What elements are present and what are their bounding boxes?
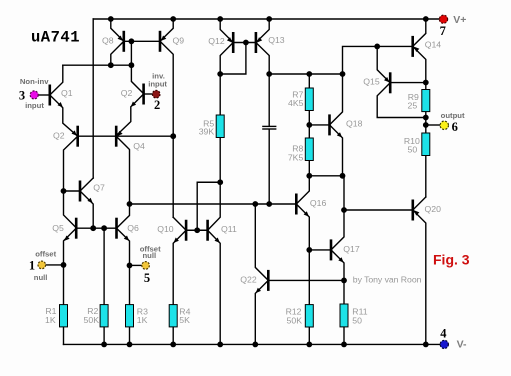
svg-text:1K: 1K	[137, 315, 148, 325]
svg-text:Q2: Q2	[121, 88, 133, 98]
svg-text:Q22: Q22	[240, 275, 257, 285]
svg-text:5: 5	[144, 271, 150, 285]
svg-text:Q10: Q10	[157, 224, 174, 234]
svg-text:Q12: Q12	[208, 36, 225, 46]
svg-text:Q18: Q18	[346, 119, 363, 129]
svg-text:50K: 50K	[84, 315, 100, 325]
svg-text:V+: V+	[453, 14, 466, 26]
svg-text:null: null	[34, 273, 48, 282]
svg-text:Q2: Q2	[53, 131, 65, 141]
svg-text:1: 1	[29, 259, 35, 273]
svg-text:Q15: Q15	[363, 77, 380, 87]
svg-text:Q14: Q14	[425, 40, 442, 50]
svg-text:input: input	[148, 79, 167, 88]
svg-text:2: 2	[154, 98, 160, 112]
svg-text:Q11: Q11	[221, 224, 237, 234]
svg-text:Q8: Q8	[102, 36, 114, 46]
svg-text:null: null	[142, 251, 156, 260]
svg-text:1K: 1K	[45, 315, 56, 325]
svg-text:Non-inv: Non-inv	[20, 77, 49, 86]
svg-text:output: output	[441, 111, 465, 120]
svg-text:4K5: 4K5	[288, 98, 304, 108]
svg-text:Q13: Q13	[268, 35, 285, 45]
svg-text:7K5: 7K5	[288, 153, 304, 163]
svg-text:by Tony van Roon: by Tony van Roon	[353, 275, 422, 285]
svg-text:4: 4	[440, 326, 447, 340]
svg-text:7: 7	[440, 24, 446, 38]
svg-text:25: 25	[408, 100, 418, 110]
svg-text:Q6: Q6	[127, 223, 139, 233]
svg-text:3: 3	[19, 89, 25, 103]
svg-text:Fig. 3: Fig. 3	[433, 251, 470, 267]
svg-text:Q17: Q17	[343, 244, 360, 254]
svg-text:input: input	[25, 101, 44, 110]
svg-text:6: 6	[452, 120, 458, 134]
svg-text:Q4: Q4	[133, 141, 145, 151]
svg-text:Q16: Q16	[310, 198, 327, 208]
svg-text:5K: 5K	[179, 315, 190, 325]
svg-text:Q1: Q1	[61, 88, 73, 98]
svg-text:offset: offset	[35, 249, 56, 258]
svg-text:Q20: Q20	[425, 204, 442, 214]
svg-text:V-: V-	[457, 339, 467, 351]
svg-text:39K: 39K	[199, 126, 215, 136]
svg-text:50: 50	[408, 144, 418, 154]
svg-text:Q7: Q7	[93, 182, 105, 192]
svg-text:Q9: Q9	[173, 36, 185, 46]
svg-text:uA741: uA741	[31, 29, 80, 47]
svg-text:Q5: Q5	[52, 223, 64, 233]
svg-text:50: 50	[352, 316, 362, 326]
svg-text:50K: 50K	[287, 316, 303, 326]
